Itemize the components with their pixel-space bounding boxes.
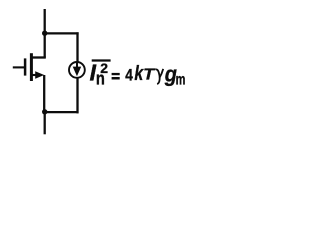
value label: In^2 = 4kT&#947;gm: [90, 59, 186, 88]
gamma: [156, 69, 160, 84]
svg-text:T: T: [143, 66, 155, 83]
svg-text:m: m: [176, 71, 186, 88]
equals sign: [112, 73, 120, 75]
wire: bottom tail below source node: [44, 111, 46, 134]
wire: noise source lower lead: [76, 78, 78, 114]
wire: gate lead: [13, 66, 25, 68]
M1 gate bar: [24, 58, 27, 75]
M1 channel bar: [30, 53, 33, 81]
arrow inside current source: [76, 63, 78, 69]
wire: top horizontal from drain node to noise source branch: [44, 32, 79, 34]
wire: bottom horizontal from source node to noise source branch: [44, 111, 79, 113]
wire: drain rail (top lead down to drain corner): [44, 9, 46, 58]
current source In (noise source): [69, 62, 85, 113]
transistor M1 (NMOS): [13, 53, 46, 81]
M1 drain lead: [32, 56, 46, 58]
wire: source lead down to bottom node: [43, 75, 45, 113]
node: drain junction dot: [42, 31, 47, 36]
node: source junction dot: [42, 109, 47, 114]
M1 source lead with arrow: [32, 74, 38, 76]
wire: noise source upper lead: [76, 32, 78, 62]
svg-text:4: 4: [125, 66, 133, 84]
overline of In^2: [92, 59, 111, 61]
svg-text:2: 2: [100, 60, 108, 76]
